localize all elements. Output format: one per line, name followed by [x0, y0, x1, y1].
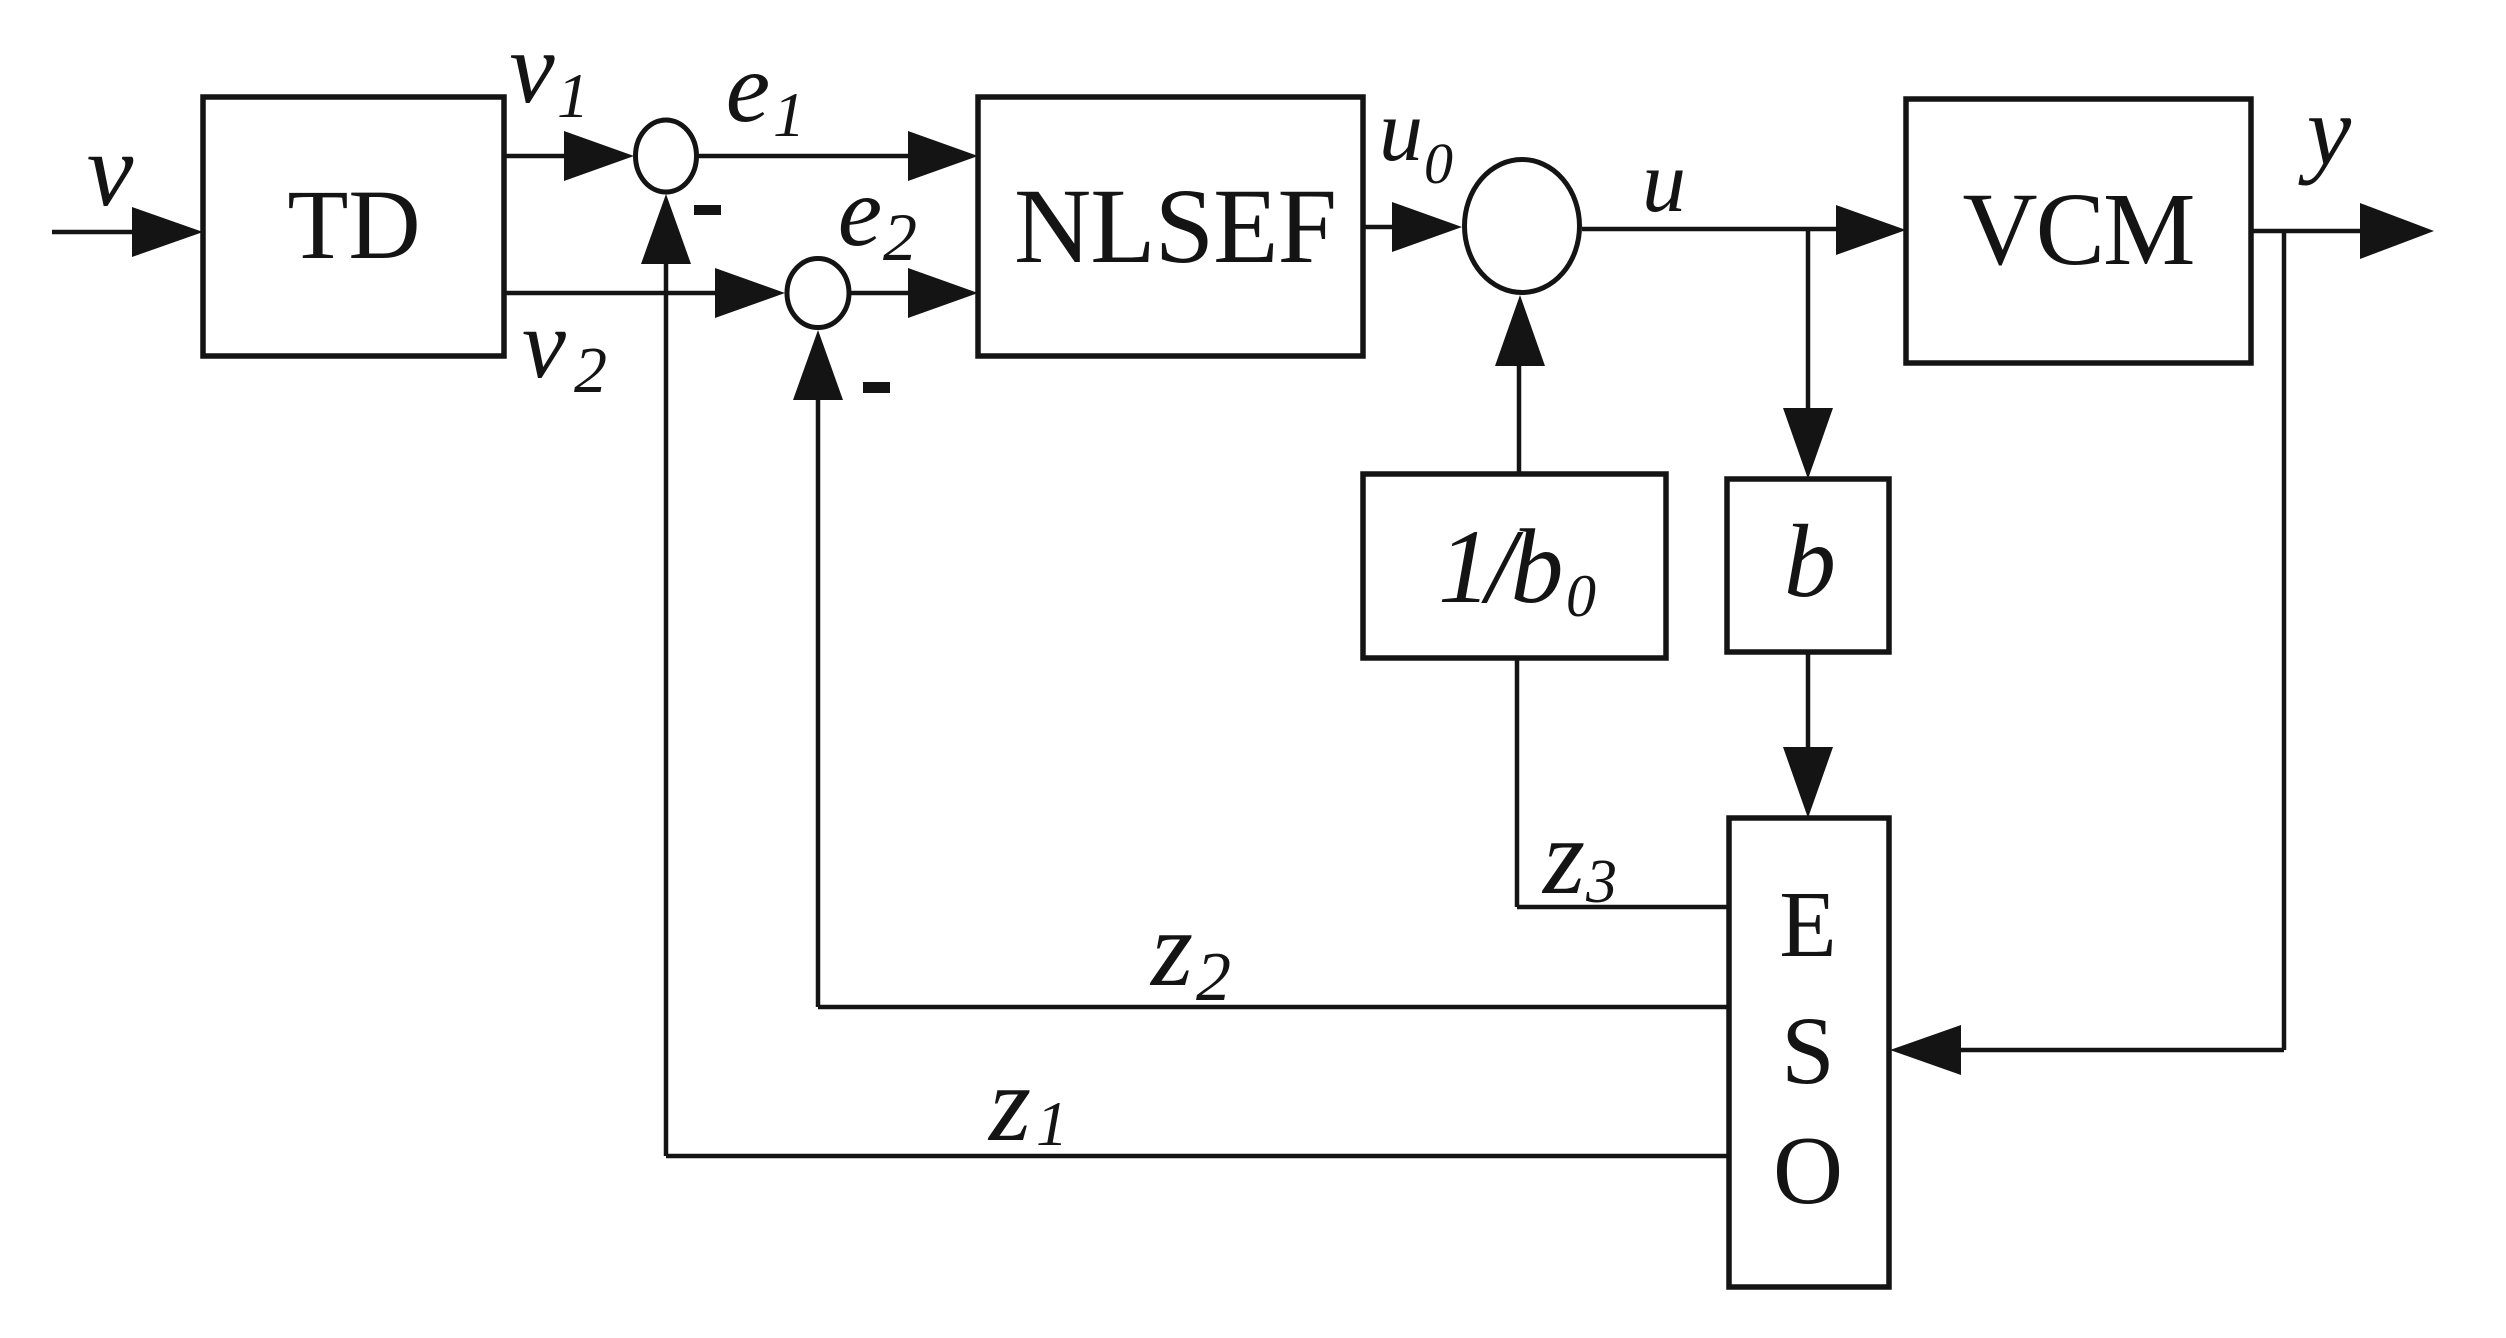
svg-text:u: u [1379, 83, 1423, 180]
svg-text:NLSEF: NLSEF [1014, 168, 1336, 286]
svg-text:1: 1 [773, 79, 805, 150]
svg-text:3: 3 [1585, 848, 1617, 916]
arrowhead v into TD [132, 207, 203, 257]
svg-text:e: e [838, 156, 882, 267]
wire v input [52, 230, 140, 235]
wire 1/b0 down [1515, 658, 1520, 907]
wire e1: S1 to NLSEF [698, 154, 915, 159]
svg-text:e: e [726, 32, 770, 143]
wire z2 horizontal [818, 1005, 1729, 1010]
wire y branch down [2282, 231, 2287, 1050]
arrowhead up into S1 (z1 minus) [641, 194, 691, 264]
svg-text:y: y [2298, 75, 2352, 186]
wire z1 horizontal [666, 1154, 1729, 1159]
wire u branch down to b [1806, 229, 1811, 414]
svg-text:0: 0 [1566, 563, 1596, 629]
minus sign at S2 [863, 382, 890, 393]
arrowhead u0 into S3 [1392, 202, 1462, 252]
arrowhead down into ESO [1783, 747, 1833, 818]
svg-text:1: 1 [557, 60, 589, 131]
wire y output [2251, 229, 2365, 234]
svg-text:2: 2 [883, 199, 917, 275]
arrowhead u into VCM [1836, 205, 1906, 255]
arrowhead e1 into NLSEF [908, 131, 978, 181]
wire v2: TD to S2 [504, 291, 722, 296]
arrowhead y output [2360, 203, 2434, 259]
arrowhead e2 into NLSEF [908, 268, 978, 318]
svg-text:2: 2 [574, 334, 607, 407]
svg-text:v: v [509, 12, 555, 125]
wire v1: TD to S1 [504, 154, 570, 159]
svg-text:1/b: 1/b [1438, 508, 1560, 625]
wire u0: NLSEF to S3 [1363, 225, 1399, 230]
arrowhead v1 into S1 [564, 131, 634, 181]
summing junction S1 [636, 120, 697, 192]
block VCM [1906, 99, 2251, 363]
wire b to ESO [1806, 652, 1811, 753]
arrowhead up into S3 (z3/b0) [1495, 295, 1545, 366]
summing junction S2 [787, 259, 849, 328]
svg-text:O: O [1773, 1117, 1843, 1224]
block ESO [1729, 818, 1889, 1287]
wire z2 vertical up to S2 [816, 395, 821, 1007]
svg-text:u: u [1642, 134, 1686, 231]
svg-text:0: 0 [1424, 131, 1453, 196]
svg-text:TD: TD [287, 169, 420, 280]
block 1/b0 [1363, 474, 1666, 658]
svg-text:b: b [1784, 504, 1836, 619]
svg-text:2: 2 [1196, 939, 1231, 1016]
svg-text:v: v [87, 111, 134, 228]
arrowhead up into S2 (z2 minus) [793, 330, 843, 400]
block b [1727, 479, 1889, 652]
arrowhead down into b [1783, 408, 1833, 479]
arrowhead left into ESO (y feedback) [1890, 1025, 1961, 1075]
summing junction S3 [1465, 160, 1580, 293]
block NLSEF [978, 97, 1363, 356]
minus sign at S1 [694, 205, 721, 215]
svg-text:E: E [1779, 873, 1836, 977]
svg-text:VCM: VCM [1963, 172, 2194, 287]
wire z3: to ESO [1517, 905, 1729, 910]
svg-text:z: z [1149, 890, 1193, 1009]
svg-text:z: z [1541, 798, 1585, 917]
svg-text:v: v [522, 290, 566, 399]
arrowhead v2 into S2 [715, 268, 785, 318]
wire y feedback to ESO [1956, 1048, 2284, 1053]
wire u: S3 to VCM [1582, 227, 1843, 232]
svg-text:S: S [1781, 997, 1834, 1104]
wire 1/b0 up to S3 [1517, 360, 1522, 474]
block TD [203, 97, 504, 356]
svg-text:1: 1 [1036, 1088, 1068, 1159]
wire e2: S2 to NLSEF [851, 291, 915, 296]
wire z1 vertical up to S1 [664, 260, 669, 1156]
svg-text:z: z [987, 1045, 1031, 1164]
